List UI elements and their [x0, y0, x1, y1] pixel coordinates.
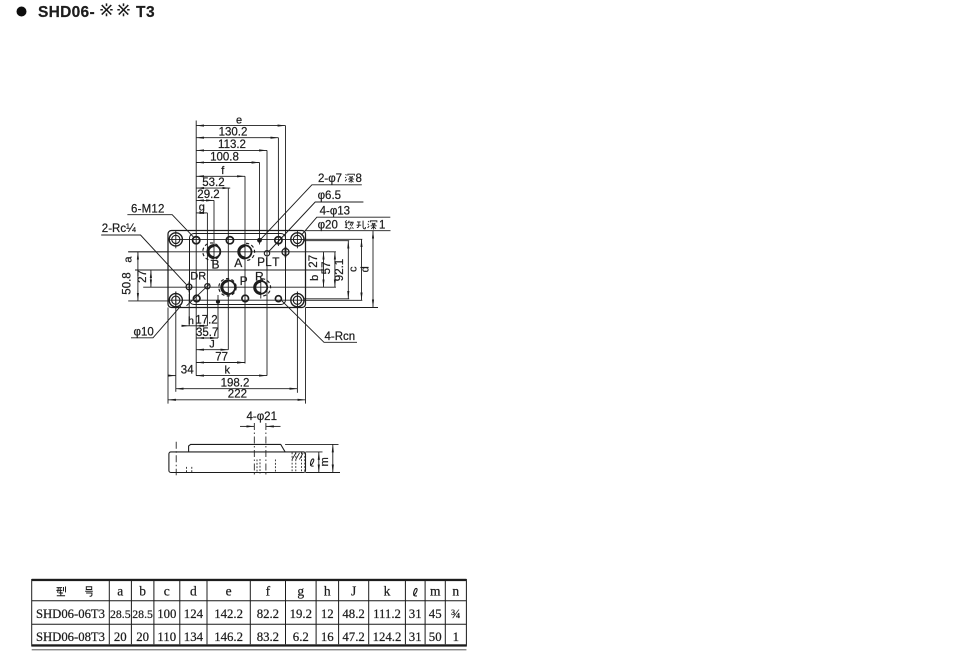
svg-text:SHD06-: SHD06- — [38, 4, 95, 21]
right dim column 27/b — [323, 252, 325, 270]
right dim column 92.1 — [347, 241, 349, 299]
dim 222 label — [228, 389, 247, 401]
dim 29.2 line — [196, 199, 214, 201]
table header model-type characters — [56, 587, 65, 596]
plate bottom edge extension right — [306, 307, 379, 309]
port R pilot dashed arc — [262, 279, 271, 296]
side view body — [169, 452, 306, 473]
svg-text:100: 100 — [157, 607, 176, 621]
leader 2-Rc1/4 label — [102, 223, 136, 235]
counterbore right column extension below plate — [296, 292, 298, 393]
left dim column a/50.8 — [137, 252, 139, 270]
dim 34 label — [181, 364, 194, 376]
left dim 27 label — [137, 270, 149, 283]
hole row centerline bottom — [170, 299, 305, 301]
svg-text:6-M12: 6-M12 — [131, 203, 165, 215]
table outer border bottom (thick) — [32, 644, 467, 646]
svg-text:8: 8 — [356, 173, 362, 185]
svg-text:h: h — [324, 584, 331, 599]
svg-text:57: 57 — [321, 262, 333, 275]
svg-text:16: 16 — [321, 630, 334, 644]
svg-text:77: 77 — [215, 351, 228, 363]
dim J line — [196, 349, 228, 351]
dim k label — [225, 365, 231, 377]
svg-text:6.2: 6.2 — [293, 630, 309, 644]
dim g line — [196, 212, 207, 214]
right dim 57 label — [321, 262, 333, 275]
svg-text:n: n — [452, 584, 459, 599]
svg-text:J: J — [209, 339, 215, 351]
leader phi6.5 line — [269, 202, 364, 252]
thread hatch marks — [292, 453, 303, 460]
plate left edge extension below — [167, 308, 169, 404]
right dim column c — [361, 239, 363, 300]
dim 113.2 label — [218, 139, 246, 151]
svg-text:T: T — [272, 255, 279, 269]
dim J label — [209, 339, 215, 351]
svg-text:2-Rc¼: 2-Rc¼ — [102, 223, 136, 235]
port P circle — [222, 281, 236, 295]
leader second Rc line through lower hole — [187, 284, 211, 306]
svg-text:d: d — [190, 584, 197, 599]
title reference marks — [100, 3, 112, 16]
leader 2-phi7 line — [261, 185, 362, 239]
svg-text:83.2: 83.2 — [257, 630, 279, 644]
dim l column — [318, 452, 320, 473]
svg-text:h: h — [188, 315, 194, 327]
M12 right column extension line — [277, 138, 279, 246]
dim 130.2 label — [219, 127, 248, 139]
svg-text:113.2: 113.2 — [218, 139, 246, 151]
port A pilot dashed arc — [246, 243, 255, 260]
dim k line — [196, 375, 267, 377]
dim 100.8 label — [210, 151, 239, 163]
dim m label — [319, 457, 331, 466]
svg-text:A: A — [234, 256, 242, 270]
svg-text:a: a — [117, 584, 123, 599]
counterbore phi20 bottom-left — [169, 292, 182, 309]
g column extension line — [206, 213, 208, 326]
right thick row extension top 92.1 — [304, 240, 349, 242]
port B pilot dashed circle — [203, 243, 220, 260]
svg-text:100.8: 100.8 — [210, 151, 239, 163]
svg-text:SHD06-08T3: SHD06-08T3 — [36, 630, 105, 644]
svg-text:27: 27 — [137, 270, 149, 283]
svg-text:134: 134 — [184, 630, 204, 644]
plate outline — [168, 231, 306, 308]
plate top edge extension right — [306, 230, 391, 232]
left dim 50.8 label — [122, 272, 134, 294]
svg-text:φ20: φ20 — [318, 220, 338, 232]
left row extension a-top — [128, 251, 168, 253]
port label A — [234, 256, 242, 270]
phi7 top column extension line — [259, 163, 261, 245]
dim m column — [332, 444, 334, 472]
svg-text:e: e — [226, 584, 232, 599]
side view body top extension right — [306, 451, 323, 453]
right dim d label — [359, 266, 371, 272]
svg-text:28.5: 28.5 — [132, 607, 153, 621]
svg-text:P: P — [240, 274, 248, 288]
svg-text:28.5: 28.5 — [110, 607, 131, 621]
dim 77 label — [215, 351, 228, 363]
side view body bottom extension right — [306, 472, 341, 474]
svg-text:19.2: 19.2 — [290, 607, 312, 621]
svg-text:20: 20 — [136, 630, 149, 644]
svg-text:DR: DR — [190, 270, 206, 282]
svg-text:g: g — [199, 202, 205, 214]
dim 113.2 line — [196, 149, 267, 151]
phi7 dowel hole top (filled) — [257, 238, 262, 243]
dim h/17.2 line — [182, 325, 190, 327]
svg-text:146.2: 146.2 — [214, 630, 243, 644]
svg-text:31: 31 — [409, 630, 422, 644]
dim f line — [196, 175, 245, 177]
counterbore left column extension below plate — [175, 292, 177, 392]
dim 29.2 label — [197, 189, 219, 201]
svg-text:4-Rcn: 4-Rcn — [325, 331, 356, 343]
port label P — [240, 274, 248, 288]
dim e line — [196, 125, 285, 127]
svg-text:k: k — [384, 584, 391, 599]
svg-text:g: g — [297, 584, 304, 599]
right dim 27 label — [308, 255, 320, 268]
svg-text:T3: T3 — [136, 4, 155, 21]
M12 tapped hole bottom-right — [275, 296, 281, 302]
svg-text:R: R — [255, 269, 264, 283]
thread hole hidden lines — [292, 453, 305, 473]
svg-text:12: 12 — [321, 607, 334, 621]
phi6.5 column extension line — [266, 150, 268, 375]
phi7 bottom column extension line — [217, 295, 219, 338]
T port hole on edge — [282, 247, 289, 257]
leader 4-Rcn line — [282, 301, 357, 343]
dim g label — [199, 202, 205, 214]
dim 17.2 label — [195, 314, 217, 326]
svg-text:31: 31 — [409, 607, 422, 621]
svg-text:d: d — [359, 266, 371, 272]
dim 53.2 line — [196, 187, 230, 189]
title text SHD06- **T3 — [38, 4, 95, 21]
svg-text:f: f — [266, 584, 271, 599]
phi7 dowel hole bottom — [216, 300, 220, 304]
dim 130.2 line — [196, 137, 278, 139]
svg-text:130.2: 130.2 — [219, 127, 248, 139]
left row extension 50.8-bottom — [128, 300, 169, 302]
port label B — [211, 258, 219, 272]
dim 198.2 label — [221, 378, 250, 390]
dim f label — [221, 165, 225, 177]
M12 tapped hole top-right — [275, 237, 282, 244]
hidden port line mid — [274, 460, 276, 473]
phi21 hole edge lines — [254, 423, 266, 475]
mounting face inner rounded rectangle — [190, 234, 286, 305]
svg-text:B: B — [211, 258, 219, 272]
title bullet — [17, 7, 27, 17]
svg-text:27: 27 — [308, 255, 320, 268]
port row line A/B/PLT — [128, 251, 336, 253]
leader phi20 label — [318, 220, 338, 232]
svg-text:17.2: 17.2 — [195, 314, 217, 326]
table lower rule — [32, 649, 467, 650]
leader 2-phi7 label — [318, 173, 342, 185]
right dim b label — [309, 275, 321, 281]
table grid lines — [32, 579, 467, 647]
svg-text:92.1: 92.1 — [334, 259, 346, 281]
svg-text:c: c — [348, 266, 360, 272]
svg-text:50: 50 — [429, 630, 442, 644]
left dim column 27 — [150, 270, 152, 287]
svg-text:20: 20 — [114, 630, 127, 644]
dim 100.8 line — [196, 162, 259, 164]
svg-text:f: f — [221, 165, 225, 177]
svg-text:SHD06-06T3: SHD06-06T3 — [36, 607, 105, 621]
svg-text:111.2: 111.2 — [373, 607, 401, 621]
M12 tapped hole top-left (datum) — [193, 237, 200, 244]
svg-text:m: m — [430, 584, 441, 599]
counterbore phi20 top-right — [291, 231, 304, 248]
right dim column d — [372, 231, 374, 308]
svg-text:b: b — [309, 275, 321, 281]
dim 222 line — [168, 399, 306, 401]
DR column extension below plate — [188, 294, 190, 326]
dim 4-phi21 label — [247, 411, 277, 423]
svg-text:4-φ21: 4-φ21 — [247, 411, 277, 423]
port P pilot dashed circle — [219, 279, 236, 296]
svg-text:50.8: 50.8 — [122, 272, 134, 294]
svg-text:45: 45 — [429, 607, 442, 621]
side view hidden slot left — [187, 467, 192, 472]
R column centerline — [260, 278, 262, 299]
port R circle — [254, 281, 267, 294]
datum column extension line — [195, 121, 197, 376]
dim phi21 arrows — [240, 425, 254, 427]
dim 35.7 label — [196, 327, 218, 339]
right dim 92.1 label — [334, 259, 346, 281]
side view pad top extension right — [285, 443, 338, 445]
svg-text:a: a — [123, 256, 135, 263]
P column extension line — [227, 188, 229, 350]
port labels P L T — [257, 255, 279, 269]
side view left hole centerline — [175, 442, 177, 476]
svg-text:124: 124 — [184, 607, 204, 621]
hole row centerline top — [170, 238, 305, 240]
svg-text:1: 1 — [379, 220, 385, 232]
dim e label — [236, 114, 242, 126]
right dim column 57 — [334, 252, 336, 287]
dim 77 line — [196, 362, 245, 364]
phi21 hole hidden centerline — [257, 459, 260, 474]
svg-text:c: c — [164, 584, 170, 599]
A column extension line — [244, 176, 246, 363]
counterbore phi20 top-left — [169, 231, 182, 248]
phi6.5 pilot hole — [264, 251, 269, 256]
right thick row extension bottom 92.1 — [304, 298, 349, 300]
small hole g-column — [205, 284, 210, 289]
M12 tapped hole top-middle — [226, 237, 233, 244]
DR drain hole — [186, 282, 192, 293]
svg-text:222: 222 — [228, 389, 247, 401]
svg-text:29.2: 29.2 — [197, 189, 219, 201]
leader 6-M12 line — [127, 215, 194, 238]
T column extension line — [285, 126, 287, 252]
leader phi10 label — [134, 326, 154, 338]
svg-text:110: 110 — [157, 630, 176, 644]
plate right edge extension below — [305, 308, 307, 404]
leader 6-M12 label — [131, 203, 165, 215]
table outer border top (thick) — [32, 579, 467, 581]
svg-text:φ10: φ10 — [134, 326, 154, 338]
leader phi6.5 label — [318, 190, 341, 202]
dim 35.7 line — [196, 337, 218, 339]
right thick row extension top c — [304, 238, 362, 240]
dim 53.2 label — [202, 177, 224, 189]
svg-text:e: e — [236, 114, 242, 126]
port label R — [255, 269, 264, 283]
leader 2-Rc1/4 line — [101, 235, 186, 285]
svg-text:35.7: 35.7 — [196, 327, 218, 339]
svg-text:4-φ13: 4-φ13 — [320, 205, 350, 217]
svg-text:53.2: 53.2 — [202, 177, 224, 189]
side view raised pad — [189, 444, 286, 452]
svg-text:J: J — [351, 584, 356, 599]
right dim c label — [348, 266, 360, 272]
B column extension line — [213, 200, 215, 258]
svg-text:124.2: 124.2 — [373, 630, 402, 644]
svg-text:b: b — [139, 584, 146, 599]
svg-text:142.2: 142.2 — [214, 607, 243, 621]
leader 4-Rcn label — [325, 331, 356, 343]
svg-text:k: k — [225, 365, 231, 377]
svg-text:m: m — [319, 457, 331, 466]
svg-text:2-φ7: 2-φ7 — [318, 173, 342, 185]
leader 4-phi13 label — [320, 205, 350, 217]
counterbore phi20 bottom-right — [291, 292, 304, 309]
port A circle — [239, 245, 252, 258]
dim 198.2 line — [176, 388, 298, 390]
leader phi10 line — [131, 306, 181, 338]
leader 4-phi13 line — [301, 217, 390, 235]
svg-text:34: 34 — [181, 364, 194, 376]
M12 tapped hole bottom-left — [193, 295, 200, 302]
dim 34 line (outside arrows) — [169, 375, 176, 377]
svg-text:φ6.5: φ6.5 — [318, 190, 341, 202]
left dim a label — [123, 256, 135, 263]
svg-text:1: 1 — [453, 630, 459, 644]
port row line P/R — [143, 286, 336, 288]
dim l label — [310, 459, 314, 466]
svg-text:L: L — [265, 255, 272, 269]
svg-text:48.2: 48.2 — [342, 607, 364, 621]
svg-text:P: P — [257, 255, 265, 269]
horizontal mid centerline — [135, 269, 324, 271]
dim h label — [188, 315, 194, 327]
svg-text:¾: ¾ — [451, 607, 461, 621]
port label DR — [190, 270, 206, 282]
svg-text:82.2: 82.2 — [257, 607, 279, 621]
svg-text:47.2: 47.2 — [342, 630, 364, 644]
M12 tapped hole bottom-middle — [242, 295, 249, 302]
right thick row extension bottom c — [304, 299, 362, 301]
port B circle — [208, 245, 221, 258]
